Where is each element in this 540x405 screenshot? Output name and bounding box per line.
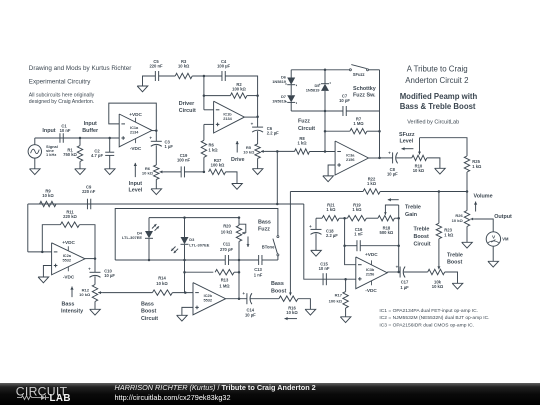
svg-text:-VDC: -VDC — [365, 288, 377, 293]
capacitor C4 — [222, 71, 225, 81]
resistor R25 — [464, 156, 469, 172]
svg-text:+VDC: +VDC — [129, 112, 142, 117]
svg-text:1 kΩ: 1 kΩ — [209, 148, 219, 153]
svg-text:1 kΩ: 1 kΩ — [297, 140, 307, 145]
svg-text:Boost: Boost — [141, 309, 156, 315]
wire C3 to R6 pot — [155, 145, 157, 165]
svg-text:Experimental Circuitry: Experimental Circuitry — [29, 79, 91, 86]
svg-text:IC1a: IC1a — [130, 126, 139, 130]
annotation arrow Bass Intensity — [70, 287, 73, 298]
svg-text:A Tribute to Craig: A Tribute to Craig — [407, 64, 468, 73]
svg-text:1 kΩ: 1 kΩ — [444, 233, 454, 238]
svg-text:1 kΩ: 1 kΩ — [352, 207, 362, 212]
svg-text:LTL-307EE: LTL-307EE — [189, 242, 209, 247]
svg-text:Output: Output — [494, 214, 512, 220]
svg-text:-VDC: -VDC — [63, 274, 75, 279]
wire bottom rail to switch — [277, 256, 279, 260]
svg-text:LTL-307EE: LTL-307EE — [122, 235, 142, 240]
label R21 1k — [326, 203, 336, 213]
annotation arrow Drive — [236, 141, 239, 153]
label Input Buffer — [82, 121, 99, 134]
potentiometer R10 sfuzz level — [412, 155, 427, 160]
label D3 LTL-307EE — [189, 237, 209, 247]
svg-text:IC3b: IC3b — [366, 268, 375, 272]
svg-text:Bass: Bass — [141, 301, 154, 307]
svg-text:10 kΩ: 10 kΩ — [243, 149, 255, 154]
wire out to C8 — [380, 157, 393, 159]
node IC2a output — [94, 257, 97, 260]
svg-text:2.2 µF: 2.2 µF — [267, 131, 279, 136]
svg-text:1 MΩ: 1 MΩ — [219, 283, 230, 288]
wire bus down to C15 row — [304, 204, 323, 279]
ground under R17 — [340, 317, 351, 323]
node y111 D5 rail — [324, 110, 327, 113]
capacitor C3 polarized — [149, 136, 161, 147]
capacitor C6 polarized — [251, 122, 263, 133]
wire IC1a feedback loop — [109, 103, 157, 131]
wire R5 to ground — [257, 159, 259, 169]
resistor R9 — [40, 201, 57, 206]
label R23 1k — [444, 228, 454, 238]
label Volume — [474, 194, 493, 200]
wire R6 wiper to C19 — [164, 171, 181, 173]
ground under R16 — [305, 309, 316, 315]
svg-text:+: + — [149, 136, 152, 141]
svg-text:1 kHz: 1 kHz — [46, 152, 56, 157]
label R12 10k — [79, 287, 91, 297]
svg-text:Treble: Treble — [447, 252, 463, 258]
svg-text:Schottky: Schottky — [353, 86, 376, 92]
label R10 10k — [413, 164, 425, 174]
svg-text:C11: C11 — [223, 241, 231, 246]
svg-text:Circuit: Circuit — [414, 241, 431, 247]
potentiometer R6 input level — [154, 165, 164, 180]
node bottom rail D4 — [148, 259, 151, 262]
label C13 1nF — [254, 267, 263, 277]
svg-text:IC1b: IC1b — [223, 113, 232, 117]
wire rail R20 down to output — [238, 260, 240, 299]
svg-text:10 kΩ: 10 kΩ — [286, 310, 298, 315]
wire fuzz row y111 — [291, 110, 379, 112]
resistor R8 — [295, 149, 310, 154]
wire C16 row — [345, 245, 399, 247]
capacitor C15 — [323, 273, 326, 285]
svg-text:10 µF: 10 µF — [245, 312, 256, 317]
potentiometer R20 — [236, 218, 246, 260]
label Bass Fuzz — [258, 219, 271, 232]
svg-text:Level: Level — [400, 139, 414, 145]
label Input — [42, 128, 55, 134]
LED D4 — [145, 218, 159, 260]
wire top row ground stub — [143, 76, 156, 86]
label C10 10uF — [104, 269, 115, 279]
ground under R12 — [90, 309, 101, 315]
svg-text:R17: R17 — [335, 293, 343, 298]
svg-text:100 kΩ: 100 kΩ — [211, 162, 225, 167]
label Fuzz Circuit — [298, 119, 315, 132]
label VM — [502, 237, 509, 242]
annotation arrow Volume — [474, 202, 477, 212]
svg-text:100 kΩ: 100 kΩ — [329, 299, 343, 304]
label R11 220k — [63, 209, 77, 219]
ground under C2 — [104, 169, 115, 175]
svg-text:1 kΩ: 1 kΩ — [367, 181, 377, 186]
svg-text:270 pF: 270 pF — [220, 247, 234, 252]
label Output — [494, 214, 512, 220]
node IC2b minus feedback — [184, 291, 187, 294]
wire R10 right to ground — [427, 158, 440, 168]
capacitor C1 — [60, 133, 63, 143]
label R3 10k — [178, 59, 190, 69]
resistor R11 — [60, 222, 79, 227]
svg-text:Fuzz: Fuzz — [258, 227, 270, 233]
op-amp IC1b — [214, 101, 245, 133]
svg-text:10 kΩ: 10 kΩ — [42, 193, 54, 198]
label R7 1M — [353, 116, 364, 126]
svg-text:IC2b: IC2b — [204, 294, 213, 298]
node IC3b output — [397, 271, 400, 274]
node IC2b output — [238, 297, 241, 300]
svg-text:100 nF: 100 nF — [177, 157, 191, 162]
label C17 1uF — [400, 280, 409, 290]
svg-text:1N5819: 1N5819 — [306, 88, 321, 93]
capacitor C14 polarized — [242, 291, 252, 304]
node R5 wiper bus tap — [276, 150, 279, 153]
label R13 1M — [219, 277, 230, 288]
svg-text:10 µF: 10 µF — [104, 273, 115, 278]
ground at IC3a plus — [323, 176, 334, 182]
node R21 R19 junction — [343, 217, 346, 220]
svg-text:Treble: Treble — [414, 227, 430, 233]
ground at IC2a plus — [38, 277, 49, 283]
capacitor C16 — [357, 240, 360, 251]
svg-text:IC1 = OPA2134PA dual FET-input: IC1 = OPA2134PA dual FET-input op-amp IC… — [379, 308, 478, 314]
wire treble pot to ground — [445, 272, 458, 283]
node IC1a output — [155, 129, 158, 132]
label Bass Boost — [271, 281, 286, 294]
label +VDC IC2a — [62, 240, 75, 245]
svg-text:Buffer: Buffer — [82, 128, 99, 134]
CircuitLab logo — [16, 384, 71, 404]
label C3 1uF — [165, 139, 174, 149]
resistor R1 — [77, 138, 82, 169]
wire R18 rail down to output — [398, 205, 400, 272]
wire rail D3 down to R13 row — [184, 260, 186, 293]
svg-text:1 µF: 1 µF — [400, 285, 409, 290]
wire fuzz top row — [291, 69, 379, 71]
svg-text:1N5819: 1N5819 — [272, 79, 287, 84]
wire IC2b output — [226, 298, 247, 300]
svg-text:220 nF: 220 nF — [149, 63, 163, 68]
potentiometer R12 bass intensity — [92, 285, 102, 302]
label Bass Boost Circuit — [141, 301, 158, 322]
label C6 2.2uF — [267, 126, 279, 136]
ground under R5 — [252, 169, 263, 175]
svg-text:2134: 2134 — [223, 117, 232, 121]
label R19 1k — [352, 203, 362, 213]
ground at IC2b plus — [177, 315, 188, 321]
wire R12 to ground — [94, 302, 96, 310]
svg-text:http://circuitlab.com/cx279ek8: http://circuitlab.com/cx279ek83kg32 — [115, 393, 231, 402]
svg-text:Drawing and Mods by Kurtus Ric: Drawing and Mods by Kurtus Richter — [29, 65, 132, 72]
wire rail x204 plus to R6b — [203, 124, 205, 140]
node IC1b output — [256, 116, 259, 119]
label R16 10k — [286, 305, 298, 315]
svg-text:2.2 µF: 2.2 µF — [326, 233, 338, 238]
svg-text:+: + — [309, 224, 312, 229]
potentiometer R5 drive — [255, 144, 265, 159]
label R20 10k — [221, 224, 233, 235]
svg-text:+: + — [242, 291, 245, 296]
potentiometer 10k treble boost — [428, 269, 445, 274]
resistor R3 — [175, 73, 192, 78]
wire IC3a output — [369, 70, 380, 158]
wire bottom rail — [115, 259, 278, 261]
text: Experimental Circuitry — [29, 79, 91, 86]
capacitor C8 polarized — [388, 150, 398, 163]
label R9 10k — [42, 188, 54, 198]
label C19 100nF — [177, 153, 191, 163]
node C16 row right — [397, 244, 400, 247]
wire IC2a output — [85, 258, 95, 260]
svg-text:Boost: Boost — [271, 289, 286, 295]
svg-text:Driver: Driver — [179, 101, 195, 107]
node bottom rail D3 — [183, 259, 186, 262]
wire IC1a out to C3 — [155, 131, 157, 142]
label Input Level — [129, 181, 143, 194]
svg-text:1 nF: 1 nF — [354, 232, 363, 237]
svg-text:SFuzz: SFuzz — [399, 132, 415, 138]
svg-text:-VDC: -VDC — [130, 146, 142, 151]
wire IC1a output — [152, 130, 156, 132]
diode D6 1N5819 — [286, 70, 296, 95]
svg-text:C13: C13 — [254, 267, 262, 272]
wire C6 to R5 pot — [257, 131, 259, 144]
svg-text:Gain: Gain — [405, 212, 417, 218]
resistor R13 — [185, 270, 240, 275]
svg-text:VM: VM — [502, 237, 509, 242]
wire fuzz input row — [295, 150, 336, 152]
label SFuzz Level — [399, 132, 415, 145]
resistor R6 1k vertical — [201, 140, 206, 157]
wire R6b to C19 row — [203, 157, 205, 172]
svg-text:Bass: Bass — [62, 302, 75, 308]
capacitor C19 — [181, 166, 184, 177]
node rail x204 at R2 row — [203, 94, 206, 97]
wire IC2a out to C10 — [94, 259, 96, 273]
label R25 1k — [472, 159, 482, 169]
wire C5-R3 — [159, 75, 176, 77]
wire R37 to ground — [226, 172, 237, 184]
label SFuzz — [353, 72, 365, 77]
node mix row R25 rail — [466, 190, 469, 193]
svg-text:500 kΩ: 500 kΩ — [380, 230, 394, 235]
wire IC2b plus to ground — [182, 307, 193, 315]
svg-text:+: + — [396, 264, 399, 269]
svg-text:10 kΩ: 10 kΩ — [79, 292, 91, 297]
capacitor C10 polarized — [88, 267, 100, 278]
node mix row R23 rail — [438, 190, 441, 193]
svg-text:Treble: Treble — [405, 205, 421, 211]
label +VDC IC1a — [129, 112, 142, 117]
resistor R19 — [347, 216, 366, 221]
wire bus y204 — [28, 203, 304, 205]
wire R16 wiper rail up — [289, 192, 292, 296]
svg-text:Fuzz Sw.: Fuzz Sw. — [353, 93, 376, 99]
svg-text:1 µF: 1 µF — [165, 144, 174, 149]
svg-text:Input: Input — [129, 181, 142, 187]
wire treble fb row — [316, 217, 399, 219]
svg-text:Bass: Bass — [271, 281, 284, 287]
svg-text:10 pF: 10 pF — [339, 98, 350, 103]
op-amp IC1a — [119, 114, 152, 147]
node R2 right on rail — [256, 94, 259, 97]
capacitor C17 polarized — [396, 264, 406, 277]
svg-text:+: + — [388, 150, 391, 155]
label D5 1N5819 — [306, 83, 321, 93]
label R8 1k — [297, 136, 307, 146]
svg-text:Anderton Circuit 2: Anderton Circuit 2 — [405, 76, 468, 85]
wire R3-C4 — [192, 75, 222, 77]
wire VM to ground — [492, 246, 494, 261]
svg-text:10 kΩ: 10 kΩ — [413, 168, 425, 173]
svg-text:Bass: Bass — [258, 219, 271, 225]
ground under R26 — [462, 242, 473, 248]
svg-text:Intensity: Intensity — [61, 309, 83, 315]
wire IC1b output — [244, 116, 257, 118]
node rail x204 at C4 row — [203, 75, 206, 78]
op-amp IC2b — [193, 283, 226, 315]
node R7 row left — [324, 130, 327, 133]
wire C4 to output rail — [225, 76, 257, 117]
node IC2a minus — [41, 251, 44, 254]
svg-text:LAB: LAB — [50, 393, 71, 404]
label C8 10uF — [387, 167, 398, 177]
node inner rail R20 — [238, 216, 241, 219]
svg-text:+VDC: +VDC — [62, 240, 75, 245]
node rail D3 at R13 row — [183, 271, 186, 274]
node rail R20 at R13 row — [238, 271, 241, 274]
label Treble Boost — [447, 252, 463, 265]
wire IC1b minus input — [204, 109, 214, 111]
capacitor C18 polarized — [309, 218, 321, 250]
label C15 10nF — [319, 261, 330, 271]
svg-text:1 kΩ: 1 kΩ — [472, 164, 482, 169]
wire rail x277 to bus — [276, 151, 278, 204]
svg-text:10 kΩ: 10 kΩ — [432, 284, 444, 289]
wire R12 wiper to R14 — [102, 292, 152, 294]
label R26 10k — [452, 213, 464, 223]
label C14 10uF — [245, 307, 256, 317]
ground under R1 — [75, 169, 86, 175]
node fuzz top D5 — [324, 69, 327, 72]
wire bus left leg down — [27, 204, 29, 252]
node input-C1-R1 — [79, 137, 111, 140]
wire R14 to IC2b minus — [172, 292, 193, 294]
svg-text:2156: 2156 — [346, 158, 355, 162]
svg-text:BTone: BTone — [262, 244, 275, 249]
label D7 1N5819 — [272, 94, 287, 104]
label C2 4.7pF — [91, 149, 103, 159]
wire IC1b plus input — [204, 123, 214, 125]
wire R23 rail upper — [438, 192, 440, 224]
node C15 R17 — [344, 278, 347, 281]
label D4 LTL-307EE — [122, 230, 143, 240]
svg-text:Boost: Boost — [447, 259, 462, 265]
svg-text:4.7 pF: 4.7 pF — [91, 153, 103, 158]
footer credit text — [115, 383, 316, 402]
potentiometer R26 volume — [464, 211, 474, 227]
wire R11 to output — [79, 225, 95, 259]
svg-text:10 kΩ: 10 kΩ — [221, 229, 233, 234]
resistor R2 feedback — [204, 93, 258, 98]
label R5 10k — [243, 145, 255, 155]
op-amp IC3a — [335, 141, 368, 175]
switch BTone — [273, 236, 279, 256]
wire R10 wiper top row — [420, 138, 468, 156]
footer bar — [0, 383, 540, 405]
ground under VM — [488, 261, 499, 267]
label R6 10k — [142, 166, 154, 176]
svg-text:IC2 = NJM5532M (NE5532N) dual: IC2 = NJM5532M (NE5532N) dual BJT op-amp… — [379, 315, 489, 321]
svg-text:10 kΩ: 10 kΩ — [452, 218, 464, 223]
label R1 750k — [63, 148, 77, 158]
label R37 100k — [211, 158, 225, 168]
svg-text:designed by Craig Anderton.: designed by Craig Anderton. — [29, 99, 94, 105]
svg-text:R14: R14 — [158, 276, 166, 281]
diode D5 1N5819 — [320, 70, 330, 111]
svg-text:10 µF: 10 µF — [387, 171, 398, 176]
wire R6 to ground — [155, 179, 157, 188]
label R17 100k — [329, 293, 343, 304]
ground under source — [30, 169, 41, 175]
svg-text:100 kΩ: 100 kΩ — [232, 87, 246, 92]
svg-text:10 kΩ: 10 kΩ — [142, 170, 154, 175]
svg-text:Boost: Boost — [414, 234, 429, 240]
label R6 1k — [209, 143, 219, 153]
resistor R17 — [343, 279, 348, 308]
label -VDC IC3b — [365, 288, 377, 293]
wire C17 to treble pot — [404, 271, 428, 273]
wire D5 rail down — [324, 111, 326, 152]
ground under R6 — [151, 189, 162, 195]
wire IC2a plus to ground — [43, 266, 51, 278]
wire C19 to node — [185, 171, 204, 173]
capacitor C7 — [343, 106, 346, 116]
svg-text:220 nF: 220 nF — [82, 189, 96, 194]
svg-text:10 kΩ: 10 kΩ — [178, 63, 190, 68]
svg-text:Level: Level — [129, 188, 143, 194]
svg-text:Verified by CircuitLab: Verified by CircuitLab — [407, 120, 459, 126]
wire R26 to ground — [466, 227, 468, 243]
svg-text:1 kΩ: 1 kΩ — [326, 207, 336, 212]
node bus at x277 — [276, 203, 279, 206]
wire mix row — [290, 191, 467, 193]
annotation arrow left bass boost — [285, 317, 298, 320]
resistor R14 — [152, 290, 172, 295]
svg-text:220 kΩ: 220 kΩ — [63, 214, 77, 219]
node treble fb row right — [397, 217, 400, 220]
wire C15 row — [323, 278, 356, 280]
svg-text:100 µF: 100 µF — [217, 63, 230, 68]
svg-text:Bass & Treble Boost: Bass & Treble Boost — [400, 102, 476, 111]
svg-text:+: + — [88, 267, 91, 272]
wire R11 loop — [42, 225, 60, 252]
wire R25 to volume row — [466, 172, 468, 192]
label R18 500k — [380, 225, 394, 235]
label BTone — [262, 244, 275, 249]
svg-text:Drive: Drive — [231, 157, 245, 163]
